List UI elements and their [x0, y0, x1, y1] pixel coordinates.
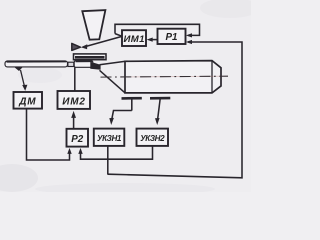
wire: P2 up to IM2 — [73, 118, 75, 129]
support sensor T2 bar — [150, 97, 170, 100]
hopper funnel — [82, 10, 105, 40]
drum axis centerline (red pencil) — [120, 75, 228, 78]
svg-text:ИМ1: ИМ1 — [123, 34, 144, 45]
right feedback rail: bottom rail to P1 (lower input) — [108, 42, 242, 178]
box UKZN1 — [94, 129, 125, 146]
drum end-cap rim — [211, 61, 213, 93]
flap (заслонка) under hopper — [72, 43, 81, 50]
svg-text:УКЗН2: УКЗН2 — [140, 134, 165, 143]
feeder tray below hopper — [74, 54, 107, 60]
top feedback rail: flap linkage to P1 — [115, 24, 200, 35]
drum axis centerline dashes — [101, 75, 229, 78]
svg-text:Р1: Р1 — [166, 32, 178, 43]
wire: UKZN2 down, left to P2 — [81, 146, 153, 159]
svg-text:ИМ2: ИМ2 — [62, 97, 85, 108]
svg-text:ДМ: ДМ — [18, 97, 36, 108]
arrowhead into P2 bottom (right) — [78, 148, 82, 154]
wire: lance sensor to DM — [21, 70, 25, 87]
lance flange joint — [68, 62, 74, 66]
arrowhead into UKZN2 top — [155, 118, 160, 125]
arrowhead into P1 right edge (lower) — [186, 40, 192, 44]
box IM1 — [122, 30, 146, 46]
arrowhead into DM top — [22, 85, 27, 91]
burner lance segment 2 — [74, 61, 93, 68]
arrowhead at flap — [81, 44, 88, 49]
box IM2 — [58, 91, 91, 109]
svg-text:Р2: Р2 — [71, 134, 84, 145]
connector rail to IM1 left edge — [115, 34, 122, 37]
kiln drum body — [125, 61, 221, 93]
kiln cone top line — [100, 61, 126, 64]
wire: UKZN1 down to bottom rail — [107, 146, 109, 175]
box UKZN2 — [137, 129, 169, 146]
sensor tick under lance — [14, 67, 22, 71]
nozzle tip wedge — [90, 62, 100, 70]
support sensor T1 stem — [131, 99, 133, 110]
wire: T1 to UKZN1 — [112, 111, 132, 119]
paper background — [0, 0, 251, 192]
wire: P1 to IM1 — [149, 39, 157, 41]
arrowhead into IM1 right edge — [147, 38, 153, 42]
box DM — [14, 92, 43, 109]
burner lance segment 1 — [5, 61, 68, 67]
arrowhead into P2 bottom (left) — [67, 148, 71, 154]
arrowhead into IM2 bottom — [71, 111, 76, 118]
support sensor T2 stem — [158, 99, 160, 118]
support sensor T1 bar — [122, 97, 142, 100]
box P1 — [158, 29, 186, 44]
svg-text:УКЗН1: УКЗН1 — [97, 134, 122, 143]
arrowhead into UKZN1 top — [109, 118, 114, 125]
kiln cone bottom line — [100, 70, 125, 92]
linkage rod from IM1 to flap — [87, 37, 122, 47]
box P2 — [67, 129, 89, 147]
wire: DM down and right to P2 — [27, 109, 70, 160]
wire: lance to IM2 — [74, 67, 76, 90]
arrowhead into P1 right edge (upper) — [186, 33, 192, 37]
